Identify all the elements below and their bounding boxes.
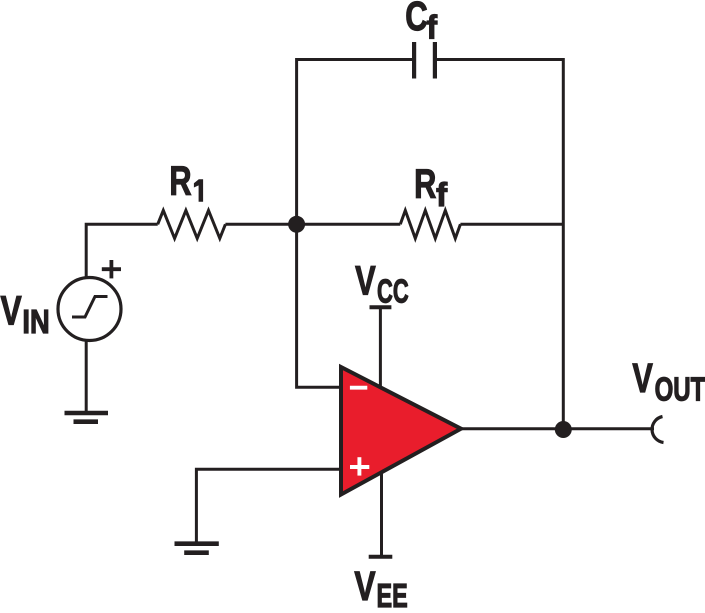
- wire node A to Rf: [297, 223, 401, 226]
- VEE terminal tick: [369, 555, 393, 559]
- svg-text:V: V: [354, 563, 376, 608]
- svg-text:R: R: [414, 160, 436, 206]
- svg-text:f: f: [427, 9, 438, 46]
- label Cf: [405, 0, 437, 45]
- svg-text:V: V: [1, 287, 23, 333]
- VCC terminal tick: [370, 305, 392, 309]
- node A junction dot: [288, 216, 305, 233]
- wire left rail: inverting input, node A, up to top feedback left segment: [297, 60, 412, 388]
- label Rf: [414, 160, 448, 213]
- source VIN waveform symbol: [72, 297, 108, 318]
- output terminal arc: [652, 417, 663, 443]
- label VEE: [354, 563, 407, 613]
- op-amp inverting input minus sign: [350, 386, 367, 390]
- svg-text:R: R: [169, 157, 191, 203]
- label VCC: [355, 257, 409, 309]
- ground at non-inverting input: [175, 544, 219, 553]
- wire input from source corner to R1: [86, 224, 158, 277]
- wire op-amp to VEE terminal: [380, 471, 383, 557]
- svg-text:IN: IN: [22, 305, 49, 341]
- wire Rf to right rail: [460, 223, 563, 226]
- resistor R1: [158, 210, 226, 238]
- svg-text:f: f: [436, 176, 448, 213]
- wire right rail: top feedback right segment down to output node B: [437, 60, 563, 430]
- label R1: [169, 157, 203, 203]
- source VIN circle: [58, 278, 121, 341]
- svg-text:OUT: OUT: [655, 372, 705, 409]
- source VIN plus polarity mark: [102, 260, 121, 278]
- capacitor Cf: [414, 42, 435, 79]
- svg-text:C: C: [405, 0, 427, 39]
- svg-text:CC: CC: [377, 273, 409, 310]
- wire VIN to ground: [85, 341, 88, 413]
- wire VCC to op-amp: [379, 307, 382, 388]
- ground below VIN: [65, 413, 109, 422]
- resistor Rf: [400, 210, 460, 238]
- wire non-inverting input to ground corner: [196, 469, 341, 543]
- svg-text:V: V: [632, 354, 652, 400]
- svg-text:EE: EE: [377, 578, 408, 608]
- label VIN: [1, 287, 50, 340]
- svg-text:V: V: [355, 257, 376, 303]
- op-amp non-inverting input plus sign: [350, 457, 369, 475]
- wire R1 to node A: [225, 223, 296, 226]
- node B output junction dot: [555, 421, 572, 438]
- label VOUT: [632, 354, 705, 408]
- op-amp U1: [341, 367, 461, 495]
- wire op-amp output: [461, 427, 654, 430]
